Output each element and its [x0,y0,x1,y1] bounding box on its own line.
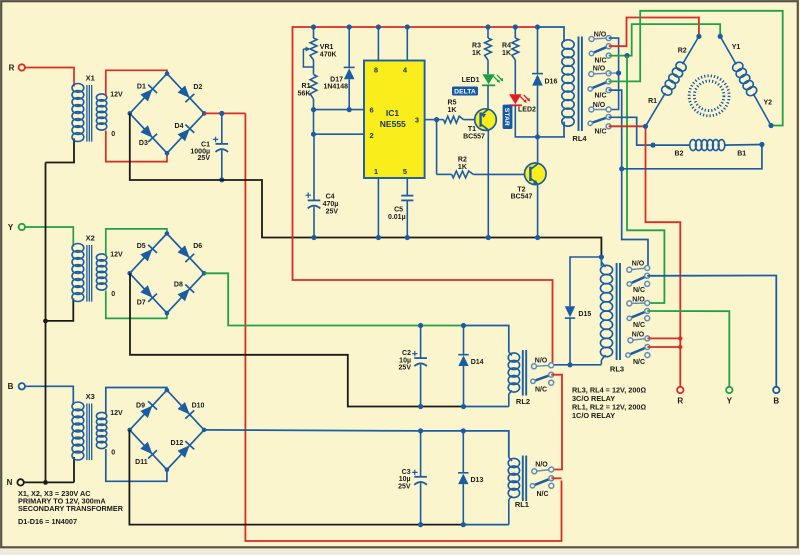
svg-text:D9: D9 [136,403,145,410]
transformer X2 core [87,245,92,302]
junction C2 top [418,323,423,328]
svg-text:D14: D14 [471,359,484,366]
junction C1 bottom [219,177,224,182]
svg-text:T2: T2 [517,186,525,193]
wire bridge2 - to RL2 section bottom (black) [130,273,464,406]
wire LED1 to T1 collector [487,85,489,110]
svg-text:N/C: N/C [594,92,606,99]
svg-text:SECONDARY TRANSFORMER: SECONDARY TRANSFORMER [18,504,124,513]
relay coil RL2 [508,352,519,407]
terminal Y (motor side) [726,387,733,406]
junction pin3 node [434,117,439,122]
svg-text:D4: D4 [175,123,184,130]
svg-text:D3: D3 [139,140,148,147]
svg-text:N/O: N/O [632,296,645,303]
RL4 contact group3 N/O [589,102,611,112]
svg-text:3: 3 [415,115,419,124]
motor stator ring [689,76,729,116]
svg-text:RL2: RL2 [516,397,530,406]
svg-text:470K: 470K [320,51,337,58]
wire rail to RL4 coil top [538,27,565,42]
svg-text:LED2: LED2 [518,106,536,113]
RL3 contact group1 N/C [633,281,650,294]
svg-text:N/C: N/C [633,287,645,294]
RL4 contact group3 arm [588,115,611,126]
wire RL1 section bottom (blue) [463,524,509,526]
wire +12V top rail of 555 section [293,27,553,363]
resistor R2 1K [437,157,530,178]
wire RL3 arm2 to terminal Y (green) [647,311,729,387]
svg-text:D16: D16 [545,78,558,85]
resistor R4 1K [502,27,519,60]
wire RL4 N/O tie vertical [609,38,619,109]
resistor R3 1K [472,27,491,60]
wire RL4 arm1 to motor R2 (red) [609,18,699,47]
transformer X1 primary winding [72,84,84,142]
junction B1 node [759,142,764,147]
junction RL3 coil top node [599,254,604,259]
RL2 contact arm [531,372,554,383]
wire X3 secondary 12V to bridge3 top [106,388,167,415]
svg-text:RL4: RL4 [572,134,587,143]
diode D5 [137,243,157,261]
diode D2 [178,84,203,102]
svg-text:10µ: 10µ [399,357,411,364]
svg-text:N: N [7,478,13,487]
LED1 green (delta indicator) [462,60,504,85]
op-amp timer IC1 NE555 [364,61,425,179]
junction D14 top [461,323,466,328]
svg-text:12V: 12V [110,252,123,259]
junction pin4 on rail [405,24,410,29]
wire RL4 N/C2 down to B1 node [609,90,648,268]
junction C1 top [219,111,224,116]
diode D11 [135,442,157,466]
diode D9 [136,401,157,418]
wire T2 collector [537,137,539,164]
wire RL4 N/C1 to motor Y1 (green) [609,24,721,55]
svg-text:N/O: N/O [593,66,606,73]
svg-text:NE555: NE555 [380,119,406,129]
junction pin2 column [311,132,316,137]
svg-text:R: R [677,396,683,405]
junction RL4 N/O2 on tie [616,70,621,75]
svg-text:D15: D15 [578,311,591,318]
transformer X3 core [87,404,92,461]
junction T1 emitter on ground [486,235,491,240]
diode D13 [458,431,483,525]
relay RL1 core [523,456,526,502]
svg-text:D10: D10 [192,403,205,410]
badge STAR [503,105,513,129]
RL4 contact group2 N/O [589,66,619,77]
wire X1 secondary 0 to bridge1 bottom [106,131,167,162]
wire RL4 arm3 to motor B2 (blue) [609,117,653,145]
relay coil RL1 [508,458,519,525]
terminal Y (mains phase Y) [8,223,25,232]
motor winding R (R1-R2 edge) [646,36,699,126]
svg-text:DELTA: DELTA [454,89,476,96]
svg-text:R3: R3 [472,43,481,50]
wire X3 primary bottom to N row [73,457,75,482]
svg-text:RL1: RL1 [515,500,529,509]
wire B terminal to X3 primary [25,386,73,405]
svg-text:Y: Y [8,223,14,232]
wire N row to X3 primary bottom [24,481,74,483]
badge DELTA [452,87,478,96]
svg-text:25V: 25V [398,484,411,491]
transformer X3 secondary winding [96,412,106,448]
svg-text:5: 5 [403,167,407,176]
wire green N/C1 node down to RL3 N/O2 [627,56,664,303]
diode D12 [170,440,194,458]
transistor T2 BC547 [511,163,546,201]
wire bridge1 + output to main red line [204,112,246,114]
RL3 contact group2 arm [627,309,650,321]
wire RL4 N/C3 to R phase node [609,125,646,127]
wire Y terminal to X2 primary [25,227,73,247]
capacitor C2 10u 25V [399,326,427,407]
wire neutral bus vertical [45,163,47,483]
wire X2 primary bottom to neutral bus [46,299,74,321]
svg-text:B1: B1 [737,151,746,158]
junction C3 top [418,428,423,433]
svg-text:1C/O RELAY: 1C/O RELAY [572,411,615,420]
RL3 contact group3 N/C [633,353,650,366]
wire RL4 arm2 to motor Y2 (green) [609,11,783,126]
wire X2 secondary 0 to bridge2 bottom [106,291,167,319]
svg-text:56K: 56K [298,90,311,97]
junction D13 top [461,428,466,433]
wire pin6 line [314,109,365,111]
svg-text:1K: 1K [448,107,457,114]
svg-text:N/O: N/O [535,357,548,364]
svg-text:D12: D12 [170,440,183,447]
svg-text:N/O: N/O [593,102,606,109]
svg-text:N/O: N/O [535,462,548,469]
RL1 contact N/C [536,483,553,498]
junction D17 top on rail [347,24,352,29]
wire X2 secondary 12V to bridge2 top [106,229,167,256]
wire X1 primary bottom to neutral bus [46,139,75,163]
svg-text:D1: D1 [137,83,146,90]
wire B1 return to RL4 arm3 line [622,145,762,169]
terminal B (motor side) [773,387,779,406]
wire pin8 to rail [377,27,379,61]
svg-text:B: B [8,382,14,391]
svg-text:C4: C4 [326,194,335,201]
wire bridge1 - to 555 ground line [130,113,602,255]
svg-text:X1: X1 [86,74,95,83]
RL2 contact N/C [535,380,554,393]
wire T2 emitter to ground [537,184,539,238]
diode D10 [178,402,205,419]
wire X3 secondary 0 to bridge3 bottom [106,449,167,481]
svg-text:R1: R1 [302,83,311,90]
resistor R1 56K [298,60,317,110]
terminal N (neutral) [7,478,24,487]
svg-text:Y2: Y2 [764,100,773,107]
svg-text:25V: 25V [198,155,211,162]
svg-text:VR1: VR1 [320,44,334,51]
relay RL2 core [523,350,526,396]
diode D17 1N4148 [323,27,354,110]
junction B1 return / N-C2 line [619,166,624,171]
junction C4 bottom on ground [311,235,316,240]
RL2 contact N/O [532,357,554,368]
wire RL2 section bottom (blue) [464,406,509,408]
junction T2 emitter on ground [535,235,540,240]
svg-text:N/C: N/C [535,387,547,394]
terminal B (mains phase B) [8,382,25,391]
relay coil RL4 [562,40,574,137]
transistor T1 BC557 [463,109,496,141]
junction pin8 on rail [376,24,381,29]
wire pin4 to rail [406,27,408,61]
svg-text:N/O: N/O [594,32,607,39]
junction arm3 on R line [678,345,682,349]
RL3 contact group3 N/O [628,332,650,343]
svg-text:12V: 12V [110,92,123,99]
wire RL3 arm3 to R phase line [647,346,680,348]
diode D6 [178,243,203,262]
svg-text:1K: 1K [502,50,511,57]
svg-text:D8: D8 [174,282,183,289]
wire bridge3 - to RL1 section bottom (black) [129,430,463,525]
transformer X1 core [87,85,92,142]
relay RL4 core [579,37,582,132]
svg-text:D5: D5 [137,243,146,250]
bridge rectifier edges (D9-D10-D11-D12) [130,390,204,470]
junction delta Y1 vertex [718,34,723,39]
svg-text:1K: 1K [472,50,481,57]
wire R phase vertical from delta to RL3/R terminal [646,126,681,390]
RL1 contact arm [530,476,554,488]
bridge vertex junctions [127,231,206,315]
junction B2 node [650,143,655,148]
wire RL3 coil bottom to D15 and RL2 N/O [551,364,601,366]
svg-text:LED1: LED1 [462,77,480,84]
svg-text:470µ: 470µ [323,201,339,208]
svg-text:0: 0 [111,291,115,298]
junction delta Y2 vertex [768,123,773,128]
wire main red power rail down-right-up (C1+ to RL1 arm) [245,113,561,541]
wire RL2 arm to RL1 N/O (red) [551,375,562,470]
wire pin1 to ground [377,178,379,238]
RL4 contact group1 N/O [589,32,611,42]
RL3 contact group1 N/O [627,260,650,272]
svg-text:N/C: N/C [633,322,645,329]
junction R3 on rail [485,24,490,29]
svg-text:D13: D13 [471,477,484,484]
svg-text:2: 2 [370,131,374,140]
junction C3 bottom [418,522,423,527]
wire RL3 N/O3 to R phase line [647,337,680,339]
RL1 contact N/O [532,462,554,474]
svg-text:RL3: RL3 [610,364,624,373]
potentiometer VR1 470K [303,27,336,67]
wire RL1 arm to main red rail [551,477,561,479]
svg-text:B2: B2 [675,151,684,158]
svg-text:C3: C3 [402,469,411,476]
wire RL3 arm1 to terminal B (blue) [647,276,776,387]
svg-text:25V: 25V [326,208,339,215]
junction D17 anode on pin6 line [347,107,352,112]
wire LED2 cathode to T2 collector node [515,105,537,137]
transformer X3 primary winding [72,402,84,460]
diode D16 [532,27,557,137]
transformer X2 secondary winding [96,254,106,290]
svg-text:B: B [773,396,779,405]
svg-text:25V: 25V [399,365,412,372]
diode D14 [458,326,483,407]
transformer X2 primary winding [72,244,84,302]
motor winding B (B2-B1) [653,140,762,151]
svg-text:R4: R4 [502,43,511,50]
svg-text:D6: D6 [193,243,202,250]
wire bridge3 + output to RL1 section (blue) [204,430,508,458]
svg-text:10µ: 10µ [399,476,411,483]
svg-text:D11: D11 [135,459,148,466]
LED2 red (star indicator) [509,60,536,113]
svg-text:T1: T1 [468,126,476,133]
svg-text:0: 0 [111,450,115,457]
svg-text:1: 1 [374,167,378,176]
junction D15 bottom [567,362,572,367]
junction delta R2 vertex [696,34,701,39]
junction D13 bottom [461,522,466,527]
svg-text:D7: D7 [137,300,146,307]
svg-text:STAR: STAR [503,108,510,126]
svg-text:1N4148: 1N4148 [323,83,348,90]
resistor R5 1K [437,99,475,123]
RL4 contact group1 N/C [594,53,611,64]
svg-text:R1: R1 [648,98,657,105]
note transformer specs [18,489,124,513]
junction VR1 top on rail [311,24,316,29]
wire RL3 top node [600,255,602,266]
svg-text:8: 8 [374,65,378,74]
svg-text:0.01µ: 0.01µ [388,214,406,221]
terminal R (motor side) [677,387,683,406]
junction R4 on rail [513,24,518,29]
RL3 contact group3 arm [626,345,650,358]
junction rail end / D16 top [535,24,540,29]
relay RL3 core [617,263,620,360]
relay coil RL3 [600,262,612,365]
svg-text:N/C: N/C [633,359,645,366]
junction T2 collector node [535,134,540,139]
capacitor C5 0.01u [388,178,413,238]
svg-text:BC557: BC557 [463,133,485,140]
motor winding Y (Y1-Y2 edge) [720,36,771,125]
svg-text:R5: R5 [448,99,457,106]
diode D15 [565,257,602,365]
svg-text:12V: 12V [110,410,123,417]
svg-text:N/C: N/C [594,128,606,135]
transformer X1 secondary winding [96,94,106,130]
bridge rectifier edges (D1-D2-D3-D4) [130,74,204,154]
RL4 contact group2 arm [588,79,611,91]
wire R terminal to X1 primary [25,68,74,87]
junction pin1 on ground [376,235,381,240]
svg-text:1K: 1K [458,164,467,171]
svg-text:X3: X3 [86,392,95,401]
svg-text:R2: R2 [678,47,687,54]
diode D3 [139,125,157,147]
wire T2 node to RL4 coil bottom [538,136,566,138]
wire pin3 node down to R2 [436,120,438,175]
svg-text:N/C: N/C [594,58,606,65]
svg-text:BC547: BC547 [511,194,533,201]
wire RL2 section top (blue) [464,326,509,353]
svg-text:N/O: N/O [632,260,645,267]
svg-text:X2: X2 [86,234,95,243]
svg-text:Y: Y [727,396,733,405]
capacitor C4 470u 25V [306,134,339,237]
note relay specs [572,385,646,420]
junction neutral bus / X2 [43,319,48,324]
terminal R (mains phase R) [9,63,25,72]
bridge vertex junctions [128,71,207,155]
wire pin2 line [314,133,365,135]
diode D8 [174,282,194,302]
svg-text:6: 6 [370,105,374,114]
svg-text:N/C: N/C [536,491,548,498]
junction neutral bus / N row [43,480,48,485]
diode D4 [175,123,195,141]
RL4 contact group2 N/C [594,88,611,100]
svg-text:Y1: Y1 [732,44,741,51]
junction N/O3 on R line [678,336,682,340]
svg-text:N/O: N/O [632,332,645,339]
wire bridge2 + output to RL2 section (green) [204,273,463,325]
bridge vertex junctions [127,388,206,472]
svg-text:IC1: IC1 [386,108,400,118]
svg-text:0: 0 [111,131,115,138]
capacitor C3 10u 25V [398,431,427,525]
RL4 contact group1 arm [589,44,611,56]
RL3 contact group2 N/O [627,296,650,306]
svg-text:D2: D2 [193,84,202,91]
junction C5 bottom on ground [405,235,410,240]
junction pin6/R1 [311,107,316,112]
diode D1 [137,83,157,101]
diode D7 [137,285,157,306]
capacitor C1 1000u 25V [190,113,228,179]
junction C2 bottom [418,404,423,409]
wire T1 emitter to ground [487,130,489,238]
svg-text:D1-D16 = 1N4007: D1-D16 = 1N4007 [18,517,77,526]
wire pin3 output [425,119,437,121]
wire X1 secondary 12V to bridge1 top [106,70,167,95]
junction D14 bottom [461,404,466,409]
RL3 contact group2 N/C [633,316,650,329]
RL4 contact group3 N/C [594,124,611,136]
wire R1 column pin6 to pin2 [313,110,315,135]
svg-text:C2: C2 [402,350,411,357]
svg-text:R2: R2 [458,157,467,164]
RL3 contact group1 arm [627,273,650,286]
bridge rectifier edges (D5-D6-D7-D8) [130,234,204,314]
junction delta R1 vertex [643,124,648,129]
svg-text:C5: C5 [394,207,403,214]
junction green N/C1 node [624,53,629,58]
svg-text:R: R [9,63,15,72]
